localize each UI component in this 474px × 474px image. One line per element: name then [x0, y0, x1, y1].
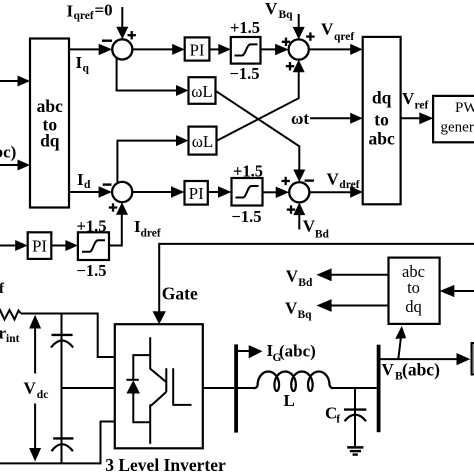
wire PI1 to saturation SAT1 — [209, 48, 219, 50]
wire SAT1 to summer S2 — [261, 48, 278, 50]
svg-text:dc: dc — [37, 389, 49, 401]
label IG(abc) — [267, 341, 316, 364]
label VBq — [265, 0, 293, 21]
svg-text:−1.5: −1.5 — [232, 207, 262, 226]
label VBd output — [286, 267, 313, 289]
grid bar (gray, clipped) — [472, 343, 474, 375]
wire DC top rail to inverter — [21, 314, 115, 358]
svg-text:Gate: Gate — [162, 284, 198, 304]
svg-text:ωt: ωt — [291, 109, 309, 128]
svg-text:PWM: PWM — [455, 100, 474, 116]
sign plus at S4 bottom — [287, 208, 295, 210]
wire omega-L2 diagonal to S2 — [217, 72, 299, 141]
svg-text:L: L — [284, 391, 295, 410]
wire input from right into abc-dq2 — [453, 290, 474, 292]
svg-text:V: V — [286, 267, 299, 286]
block 3-level inverter box — [115, 324, 203, 448]
svg-text:PI: PI — [189, 184, 204, 203]
wire Iq to summer S1 — [69, 48, 101, 50]
svg-text:−1.5: −1.5 — [230, 64, 260, 83]
wire S1 to PI1 — [132, 48, 173, 50]
wire input 2 to abc-dq — [0, 164, 20, 166]
wire DC midpoint rail to inverter — [62, 387, 115, 389]
wire PI3 to saturation SAT3 — [51, 245, 66, 247]
svg-text:+1.5: +1.5 — [230, 18, 260, 37]
label r_int — [0, 324, 20, 346]
svg-text:V: V — [303, 217, 316, 236]
svg-text:I: I — [76, 53, 83, 72]
sign plus at S2 top right — [306, 35, 314, 37]
wire input 1 to abc-dq — [0, 80, 20, 82]
wire branch S1 to omega-L1 — [117, 57, 177, 91]
svg-text:PI: PI — [32, 237, 47, 256]
svg-text:q: q — [83, 63, 90, 75]
svg-text:(abc): (abc) — [279, 342, 316, 361]
svg-text:3 Level Inverter: 3 Level Inverter — [105, 455, 226, 474]
svg-text:Bq: Bq — [298, 309, 313, 321]
IGBT collector lead — [150, 337, 166, 382]
svg-text:PI: PI — [189, 41, 204, 60]
sign minus at S3 — [103, 183, 112, 185]
svg-text:V: V — [285, 299, 298, 318]
diode top stub — [133, 355, 150, 380]
sign minus at S4 top right — [305, 179, 314, 181]
svg-text:to: to — [374, 109, 389, 129]
wire VBd up to S4 — [298, 214, 300, 230]
diode cathode bar — [126, 379, 138, 381]
label VBq output — [285, 299, 312, 322]
wire slanted bar2 to abc-dq2 — [398, 339, 401, 360]
label Cf — [325, 404, 340, 426]
capacitor C-lower — [61, 388, 63, 463]
wire IG branch arrow — [238, 350, 250, 352]
label Id — [77, 170, 91, 191]
wire VBq output arrow — [331, 305, 389, 307]
label Vref — [402, 89, 429, 112]
wire inductor to bar2 — [332, 387, 377, 389]
diode triangle — [126, 380, 140, 393]
block saturation SAT1 — [231, 37, 261, 64]
bus bar 1 — [234, 344, 238, 432]
sign plus at S2 bottom — [286, 65, 294, 67]
svg-text:V: V — [24, 378, 37, 397]
svg-text:qref: qref — [74, 10, 94, 22]
block omega-L1 — [189, 77, 216, 104]
block dq-to-abc — [363, 37, 401, 204]
label Vdref — [327, 170, 360, 192]
svg-text:Bd: Bd — [298, 277, 313, 289]
block saturation SAT3 — [78, 232, 109, 260]
V_dc dimension arrow — [34, 327, 36, 374]
wire Vref to PWM — [401, 117, 421, 119]
label VBd below S4 — [303, 217, 330, 241]
svg-text:V: V — [265, 0, 278, 18]
svg-text:qref: qref — [334, 31, 354, 43]
label VB(abc) — [382, 360, 441, 383]
resistor r_int (cropped zigzag) — [0, 310, 21, 320]
svg-text:V: V — [382, 360, 395, 379]
summer S1 (q current error) — [112, 39, 132, 59]
IGBT emitter — [150, 392, 166, 444]
label Vdc — [24, 378, 49, 401]
wire inverter AC output — [203, 387, 234, 389]
sign plus at S4 left — [282, 180, 290, 182]
wire input to PI3 (dc loop) — [0, 245, 16, 247]
block PI2 — [185, 181, 208, 205]
wire Id to summer S3 — [69, 191, 100, 193]
svg-text:−1.5: −1.5 — [77, 261, 107, 280]
summer S2 (Vq output) — [289, 39, 309, 59]
block abc-to-dq (current transform) — [30, 39, 69, 208]
wire omega-t to dq-abc — [310, 117, 351, 119]
svg-text:Bd: Bd — [315, 228, 330, 240]
svg-text:I: I — [77, 170, 84, 189]
wire omega-L1 diagonal to S4 — [216, 91, 300, 170]
svg-text:f: f — [336, 414, 340, 426]
wire S4 to dq-abc — [309, 191, 351, 193]
svg-text:d: d — [84, 179, 91, 191]
svg-text:ωL: ωL — [192, 132, 214, 151]
IGBT gate bar and lead — [173, 368, 191, 405]
sign plus at S1 top right — [128, 34, 136, 36]
wire bar1 to inductor — [238, 387, 255, 389]
wire SAT2 to summer S4 — [263, 191, 278, 193]
svg-text:(abc): (abc) — [0, 143, 16, 162]
wire VBd output arrow — [331, 274, 389, 276]
summer S4 (Vd output) — [289, 182, 309, 202]
wire Iqref down to S1 — [121, 7, 123, 30]
svg-text:int: int — [6, 333, 20, 345]
svg-text:=0: =0 — [95, 1, 113, 20]
block saturation SAT2 — [232, 178, 263, 206]
wire VBq down to S2 — [298, 14, 300, 30]
svg-text:abc: abc — [368, 128, 394, 148]
svg-text:abc: abc — [37, 96, 63, 116]
diode bottom lead — [133, 394, 150, 423]
ground symbol — [347, 446, 363, 449]
block omega-L2 — [189, 127, 217, 155]
label Iq — [76, 53, 90, 75]
svg-text:V: V — [327, 170, 340, 189]
wire SAT3 up to S3 (Idref) — [109, 215, 122, 246]
wire DC bottom rail to inverter — [0, 422, 115, 464]
svg-text:dq: dq — [40, 131, 60, 151]
svg-text:dref: dref — [339, 179, 359, 191]
block PI1 — [185, 37, 210, 60]
bus bar 2 — [377, 345, 381, 433]
sign minus at S1 — [102, 40, 112, 42]
wire S3 to PI2 — [132, 191, 173, 193]
svg-text:Bq: Bq — [279, 9, 294, 21]
IGBT body bar — [165, 368, 167, 392]
svg-text:dq: dq — [372, 87, 392, 107]
wire S2 to dq-abc — [309, 48, 352, 50]
svg-text:(abc): (abc) — [402, 360, 440, 380]
svg-text:I: I — [67, 1, 74, 20]
svg-text:dref: dref — [141, 227, 161, 239]
label Vqref — [321, 20, 354, 43]
block PI3 (dc voltage loop) — [28, 232, 52, 259]
summer S3 (d current error) — [112, 182, 132, 202]
wire VB(abc) to grid bar — [381, 358, 458, 360]
capacitor Cf — [354, 388, 356, 447]
wire PI2 to saturation SAT2 — [208, 191, 220, 193]
label Iqref=0 — [67, 1, 113, 22]
block PWM generator (clipped at right edge) — [433, 96, 474, 142]
svg-text:to: to — [407, 278, 420, 297]
svg-text:generator: generator — [441, 120, 474, 136]
svg-text:V: V — [321, 20, 334, 39]
svg-text:ref: ref — [415, 100, 429, 112]
capacitor C-upper — [61, 314, 63, 389]
svg-text:dq: dq — [405, 297, 422, 316]
sign plus at S3 bottom left — [109, 206, 117, 208]
svg-text:ωL: ωL — [191, 82, 213, 101]
sign plus at S2 left — [282, 41, 290, 43]
block abc-to-dq (voltage transform) — [389, 258, 440, 324]
wire branch Id to omega-L2 — [117, 141, 177, 182]
label Idref — [134, 217, 161, 239]
inductor L coil — [254, 372, 333, 392]
wire Gate from right edge down to inverter — [159, 244, 474, 312]
svg-text:V: V — [402, 89, 415, 108]
